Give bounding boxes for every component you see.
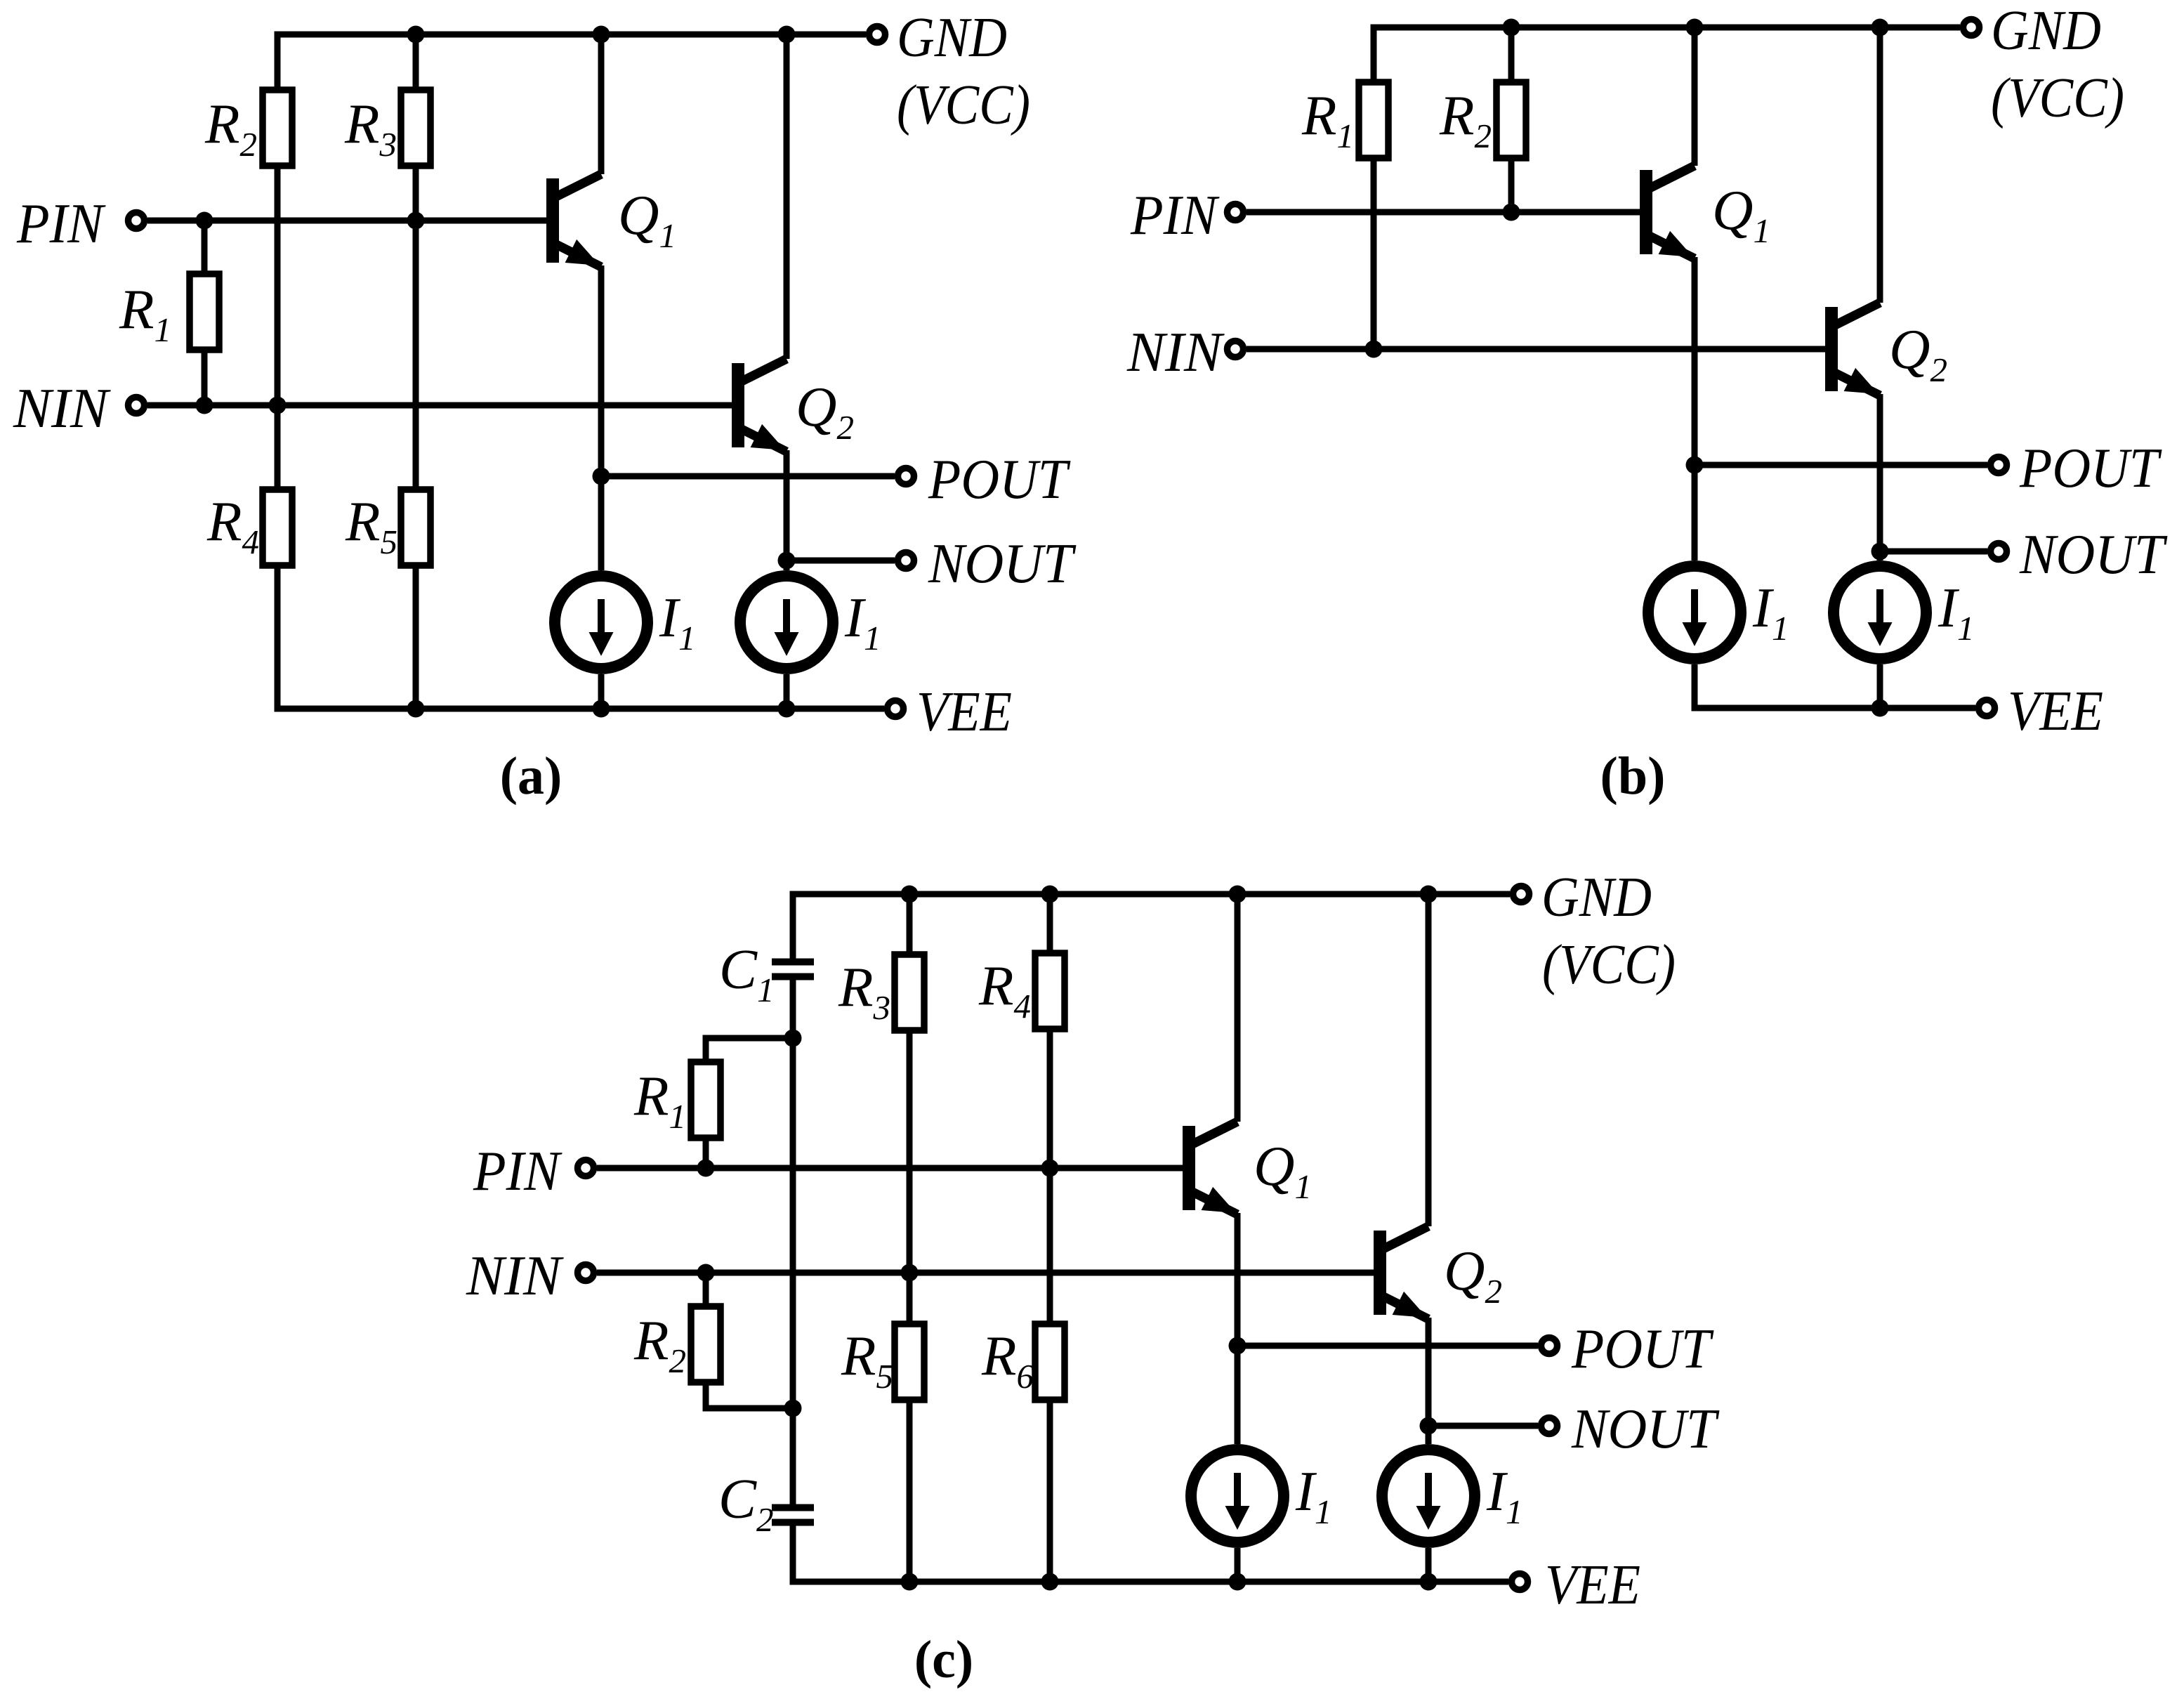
wire: Q2 emitter to VEE (b) <box>1877 664 1883 708</box>
svg-text:Q2: Q2 <box>796 375 854 447</box>
svg-text:I1: I1 <box>1295 1459 1331 1531</box>
resistor R2 (c) <box>691 1306 721 1382</box>
svg-text:NOUT: NOUT <box>2019 523 2168 586</box>
wire: Q2 collector vertical (a) <box>784 34 790 359</box>
svg-text:(a): (a) <box>500 747 563 806</box>
svg-text:POUT: POUT <box>2019 436 2162 499</box>
wire: R3 column (a) <box>413 34 419 709</box>
wire: Q1 collector vertical (a) <box>598 34 605 174</box>
wire: VEE bottom rail (a) <box>277 565 884 709</box>
svg-text:GND: GND <box>1541 865 1652 929</box>
wire: GND top rail (c) <box>793 894 1510 959</box>
junction node (c) #15 <box>1229 1573 1246 1591</box>
junction node (b) #6 <box>1686 457 1704 474</box>
wire: VEE bottom rail (c) <box>793 1525 1508 1582</box>
svg-text:POUT: POUT <box>1571 1317 1714 1380</box>
terminal POUT (b) <box>1991 457 2007 473</box>
current source I1 right (a) <box>740 576 833 669</box>
svg-text:R1: R1 <box>119 277 171 349</box>
terminal PIN (b) <box>1228 204 1244 221</box>
junction node (c) #8 <box>697 1264 715 1282</box>
svg-text:Q1: Q1 <box>1254 1134 1312 1206</box>
terminal NIN (a) <box>129 398 145 414</box>
transistor Q2 (b) <box>1825 303 1880 395</box>
wire: R2 column (b) <box>1508 27 1515 212</box>
svg-text:VEE: VEE <box>2008 679 2103 742</box>
transistor Q2 (a) <box>732 359 787 452</box>
wire: R4-R6 column (c) <box>1047 894 1053 1582</box>
svg-text:GND: GND <box>1991 0 2101 62</box>
junction node (b) #5 <box>1365 341 1383 358</box>
wire: NOUT output wire (b) <box>1880 549 1987 555</box>
transistor Q2 (c) <box>1374 1226 1428 1319</box>
junction node (c) #4 <box>1420 886 1438 903</box>
junction node (b) #1 <box>1503 19 1520 37</box>
terminal NIN (c) <box>578 1265 594 1281</box>
svg-text:NOUT: NOUT <box>928 532 1077 595</box>
terminal GND (c) <box>1513 886 1530 903</box>
wire: POUT output wire (a) <box>601 473 895 480</box>
wire: NOUT output wire (a) <box>787 558 895 564</box>
wire: PIN input wire (a) <box>147 218 546 224</box>
svg-text:R2: R2 <box>633 1308 686 1380</box>
svg-text:VEE: VEE <box>916 680 1012 743</box>
junction node (a) #3 <box>196 397 213 414</box>
svg-text:(b): (b) <box>1600 747 1666 806</box>
svg-text:R5: R5 <box>345 490 397 561</box>
current source I1 left (b) <box>1648 566 1741 659</box>
capacitor C2 (c) <box>772 1504 814 1526</box>
svg-text:I1: I1 <box>844 586 881 657</box>
svg-text:(VCC): (VCC) <box>1991 66 2124 129</box>
wire: R1 column link (b) <box>1371 158 1377 349</box>
svg-text:PIN: PIN <box>1130 183 1220 247</box>
terminal NOUT (b) <box>1991 544 2007 560</box>
junction node (a) #6 <box>593 26 610 44</box>
junction node (a) #2 <box>407 212 425 230</box>
svg-text:NIN: NIN <box>1126 320 1225 383</box>
terminal NIN (b) <box>1228 341 1244 357</box>
terminal PIN (c) <box>578 1160 594 1176</box>
svg-text:NOUT: NOUT <box>1571 1397 1720 1460</box>
svg-text:POUT: POUT <box>928 447 1071 511</box>
svg-text:PIN: PIN <box>16 192 106 255</box>
junction node (a) #5 <box>407 26 425 44</box>
svg-text:Q2: Q2 <box>1889 317 1947 389</box>
terminal NOUT (c) <box>1541 1418 1558 1434</box>
terminal VEE (a) <box>888 701 904 717</box>
terminal VEE (b) <box>1979 700 1995 716</box>
resistor R6 (c) <box>1035 1324 1065 1400</box>
terminal GND (a) <box>869 27 886 43</box>
junction node (a) #11 <box>593 700 610 718</box>
wire: Q2 collector vertical (c) <box>1426 894 1432 1226</box>
wire: GND top rail (b) <box>1374 27 1960 82</box>
svg-text:R3: R3 <box>838 955 890 1027</box>
wire: Q1 collector vertical (c) <box>1235 894 1241 1122</box>
wire: R1 top lead (c) <box>706 1038 793 1062</box>
junction node (a) #9 <box>778 552 796 570</box>
transistor Q1 (a) <box>546 174 601 267</box>
terminal NOUT (a) <box>898 553 914 569</box>
svg-text:R2: R2 <box>204 92 257 164</box>
svg-text:I1: I1 <box>659 586 695 657</box>
wire: GND top rail (a) <box>277 34 866 90</box>
current source I1 right (c) <box>1382 1450 1475 1542</box>
junction node (c) #9 <box>901 1264 919 1282</box>
resistor R3 (a) <box>401 90 430 166</box>
wire: R1 bottom stub (c) <box>703 1138 709 1168</box>
wire: Q1 emitter vertical (a) <box>598 265 605 570</box>
svg-text:Q1: Q1 <box>1712 178 1770 250</box>
junction node (c) #13 <box>901 1573 919 1591</box>
junction node (c) #6 <box>697 1160 715 1177</box>
terminal POUT (c) <box>1541 1338 1558 1354</box>
wire: POUT output wire (c) <box>1237 1343 1538 1349</box>
wire: NOUT output wire (c) <box>1428 1423 1538 1429</box>
resistor R1 (b) <box>1359 82 1388 158</box>
wire: PIN input wire (b) <box>1246 209 1640 216</box>
svg-text:R4: R4 <box>206 490 259 561</box>
junction node (c) #1 <box>901 886 919 903</box>
wire: Q2 emitter vertical (b) <box>1877 394 1883 560</box>
junction node (b) #7 <box>1871 543 1889 560</box>
junction node (b) #2 <box>1686 19 1704 37</box>
current source I1 right (b) <box>1834 566 1926 659</box>
svg-text:NIN: NIN <box>13 376 111 440</box>
svg-text:I1: I1 <box>1752 576 1789 648</box>
resistor R4 (c) <box>1035 953 1065 1029</box>
svg-text:GND: GND <box>897 6 1007 69</box>
resistor R5 (a) <box>401 490 430 565</box>
svg-text:(VCC): (VCC) <box>897 73 1030 136</box>
junction node (c) #7 <box>1041 1160 1059 1177</box>
junction node (a) #12 <box>778 700 796 718</box>
junction node (a) #7 <box>778 26 796 44</box>
svg-text:VEE: VEE <box>1545 1553 1640 1616</box>
current source I1 left (a) <box>555 576 647 669</box>
wire: Q2 collector vertical (b) <box>1877 27 1883 303</box>
junction node (a) #8 <box>593 468 610 485</box>
resistor R1 (c) <box>691 1062 721 1138</box>
junction node (b) #8 <box>1871 700 1889 717</box>
svg-text:I1: I1 <box>1938 576 1974 648</box>
junction node (c) #10 <box>784 1400 802 1417</box>
wire: R3-R5 column (c) <box>907 894 913 1582</box>
svg-text:R6: R6 <box>981 1324 1034 1396</box>
junction node (c) #12 <box>1420 1417 1438 1435</box>
wire: Q2 emitter vertical (a) <box>784 450 790 570</box>
wire: Q2 emitter to VEE (a) <box>784 674 790 709</box>
wire: POUT output wire (b) <box>1695 462 1987 468</box>
junction node (a) #4 <box>269 397 287 414</box>
terminal GND (b) <box>1963 20 1980 36</box>
junction node (b) #3 <box>1871 19 1889 37</box>
wire: NIN input wire (a) <box>147 402 732 409</box>
svg-text:C2: C2 <box>718 1467 774 1539</box>
terminal PIN (a) <box>129 213 145 229</box>
svg-text:C1: C1 <box>719 938 775 1009</box>
capacitor C1 (c) <box>772 959 814 980</box>
transistor Q1 (c) <box>1183 1122 1237 1214</box>
wire: R1 column (a) <box>202 221 208 405</box>
resistor R5 (c) <box>895 1324 924 1400</box>
resistor R2 (b) <box>1496 82 1526 158</box>
wire: Q1 emitter to VEE (a) <box>598 674 605 709</box>
junction node (c) #14 <box>1041 1573 1059 1591</box>
svg-text:R1: R1 <box>1301 84 1354 155</box>
svg-text:R1: R1 <box>633 1064 686 1136</box>
terminal VEE (c) <box>1512 1574 1528 1590</box>
junction node (b) #4 <box>1503 204 1520 221</box>
wire: Q1 emitter to VEE (c) <box>1235 1548 1241 1582</box>
junction node (c) #11 <box>1229 1337 1246 1355</box>
wire: R2 column (c) <box>706 1273 793 1408</box>
junction node (c) #3 <box>1229 886 1246 903</box>
current source I1 left (c) <box>1191 1450 1284 1542</box>
terminal POUT (a) <box>898 468 914 485</box>
resistor R1 (a) <box>190 274 219 350</box>
junction node (c) #5 <box>784 1030 802 1047</box>
resistor R2 (a) <box>263 90 292 166</box>
wire: Q1 emitter vertical (b) <box>1692 257 1698 560</box>
wire: VEE bottom rail (b) <box>1695 664 1975 708</box>
wire: Q1 collector vertical (b) <box>1692 27 1698 166</box>
wire: NIN input wire (b) <box>1246 346 1825 353</box>
wire: C column mid (c) <box>790 979 796 1505</box>
svg-text:PIN: PIN <box>473 1139 563 1202</box>
svg-text:Q2: Q2 <box>1444 1239 1502 1311</box>
junction node (c) #16 <box>1420 1573 1438 1591</box>
transistor Q1 (b) <box>1640 166 1695 258</box>
svg-text:R4: R4 <box>978 954 1031 1025</box>
wire: R2-R4 column link (a) <box>275 166 281 490</box>
svg-text:R2: R2 <box>1439 84 1492 155</box>
wire: Q2 emitter vertical (c) <box>1426 1318 1432 1444</box>
resistor R4 (a) <box>263 490 292 565</box>
junction node (a) #1 <box>196 212 213 230</box>
svg-text:R5: R5 <box>841 1324 893 1396</box>
svg-text:R3: R3 <box>344 92 397 164</box>
svg-text:(VCC): (VCC) <box>1542 933 1676 996</box>
svg-text:(c): (c) <box>914 1630 973 1689</box>
wire: Q2 emitter to VEE (c) <box>1426 1548 1432 1582</box>
junction node (c) #2 <box>1041 886 1059 903</box>
wire: Q1 emitter vertical (c) <box>1235 1213 1241 1444</box>
svg-text:NIN: NIN <box>466 1244 564 1307</box>
svg-text:I1: I1 <box>1486 1459 1522 1531</box>
resistor R3 (c) <box>895 955 924 1030</box>
junction node (a) #10 <box>407 700 425 718</box>
svg-text:Q1: Q1 <box>618 183 676 255</box>
wire: NIN input wire (c) <box>597 1270 1374 1276</box>
wire: PIN input wire (c) <box>597 1165 1183 1172</box>
